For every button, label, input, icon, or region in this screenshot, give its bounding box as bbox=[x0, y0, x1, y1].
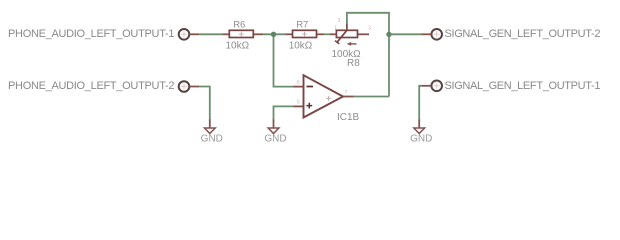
svg-text:R7: R7 bbox=[296, 20, 308, 31]
inverting input minus sign bbox=[307, 86, 314, 88]
pin origin cross P1 bbox=[181, 31, 187, 37]
svg-text:3: 3 bbox=[338, 18, 341, 24]
svg-text:R8: R8 bbox=[347, 58, 360, 69]
wiper diagonal of R8 bbox=[337, 30, 347, 42]
wiper lead of R8 (pin 3) bbox=[346, 24, 348, 31]
wire op-amp non-inverting input to GND bbox=[274, 106, 294, 120]
resistor R6 bbox=[222, 30, 263, 37]
wire net from node B to SIGNAL_GEN_LEFT_OUTPUT-2 pin bbox=[389, 33, 421, 35]
non-inverting input plus sign bbox=[306, 103, 312, 109]
svg-text:R6: R6 bbox=[233, 20, 245, 31]
svg-text:10kΩ: 10kΩ bbox=[289, 40, 313, 51]
wire net N$2 between R6 and R7 bbox=[263, 33, 285, 35]
op-amp IC1B bbox=[294, 75, 354, 117]
pin SIGNAL_GEN_LEFT_OUTPUT-2 bbox=[421, 29, 442, 40]
svg-text:10kΩ: 10kΩ bbox=[226, 40, 250, 51]
wire PHONE_AUDIO_LEFT_OUTPUT-2 to GND bbox=[199, 87, 210, 121]
svg-text:GND: GND bbox=[201, 134, 223, 145]
pin PHONE_AUDIO_LEFT_OUTPUT-2 bbox=[179, 81, 200, 92]
svg-text:GND: GND bbox=[410, 134, 432, 145]
svg-text:PHONE_AUDIO_LEFT_OUTPUT-2: PHONE_AUDIO_LEFT_OUTPUT-2 bbox=[8, 80, 175, 92]
svg-text:SIGNAL_GEN_LEFT_OUTPUT-2: SIGNAL_GEN_LEFT_OUTPUT-2 bbox=[445, 28, 601, 40]
adjustment arrow of R8 bbox=[350, 43, 357, 45]
pin SIGNAL_GEN_LEFT_OUTPUT-1 bbox=[421, 81, 442, 92]
wire op-amp output to feedback vertical bbox=[354, 96, 390, 98]
pin origin cross P4 bbox=[434, 83, 440, 89]
svg-text:3: 3 bbox=[368, 26, 371, 32]
ground GND3 (right) bbox=[414, 120, 425, 134]
wire net feedback from R8 wiper up and over to node B bbox=[347, 13, 389, 97]
pin PHONE_AUDIO_LEFT_OUTPUT-1 bbox=[179, 29, 200, 40]
wire net N$1 from pin PHONE_AUDIO_LEFT_OUTPUT-1 to R6 bbox=[199, 33, 222, 35]
svg-text:PHONE_AUDIO_LEFT_OUTPUT-1: PHONE_AUDIO_LEFT_OUTPUT-1 bbox=[8, 28, 175, 40]
pin origin cross P3 bbox=[434, 31, 440, 37]
svg-text:GND: GND bbox=[264, 134, 286, 145]
pin origin cross P2 bbox=[181, 84, 187, 90]
svg-text:6: 6 bbox=[297, 80, 300, 86]
wire net N$2 vertical drop to op-amp inverting input bbox=[274, 34, 294, 86]
svg-text:1: 1 bbox=[334, 26, 337, 32]
junction node B (wiper/output/SIGNAL_GEN-2) bbox=[386, 32, 391, 37]
svg-text:5: 5 bbox=[297, 100, 300, 106]
svg-text:IC1B: IC1B bbox=[337, 112, 360, 123]
wire net between R7 and R8 bbox=[324, 33, 330, 35]
origin cross IC1B bbox=[326, 96, 331, 101]
resistor R7 bbox=[286, 30, 324, 37]
junction node A (R6/R7/op-amp) bbox=[271, 32, 276, 37]
wire SIGNAL_GEN_LEFT_OUTPUT-1 to GND bbox=[419, 86, 421, 121]
ground GND2 (middle) bbox=[268, 120, 279, 134]
ground GND1 (left) bbox=[205, 120, 216, 134]
svg-text:SIGNAL_GEN_LEFT_OUTPUT-1: SIGNAL_GEN_LEFT_OUTPUT-1 bbox=[445, 80, 601, 92]
potentiometer R8 (trimmer) bbox=[330, 18, 371, 46]
svg-text:7: 7 bbox=[345, 90, 348, 96]
